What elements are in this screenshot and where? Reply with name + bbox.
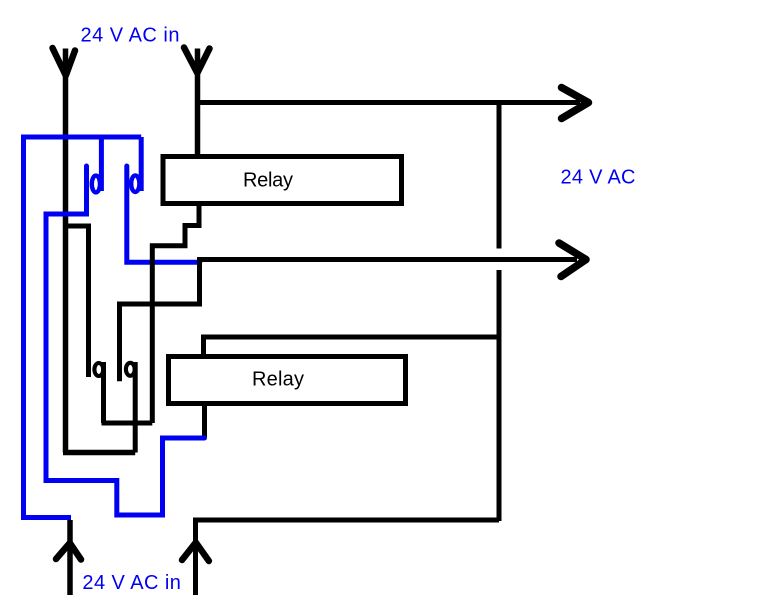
contact hook Q2 (black eyelet with tail) <box>126 362 135 453</box>
wire: second output line to arrow (24 V AC out 2) <box>197 243 586 277</box>
wire: blue lead from upper contact A winding down to relay K2 bottom pin <box>46 166 205 515</box>
24 V AC input line L3 (bottom left) with up arrowhead <box>56 520 81 595</box>
contact hook D1 (blue eyelet) <box>92 176 100 193</box>
svg-text:24 V AC in: 24 V AC in <box>82 572 180 594</box>
relay K1 box <box>163 157 402 204</box>
label: 24 V AC in (bottom) <box>82 572 180 594</box>
24 V AC input line L2 (top) with down arrowhead, feeds relay K1 top pin <box>184 48 210 157</box>
contact hook D2 (blue eyelet) <box>131 175 139 192</box>
svg-text:Relay: Relay <box>252 369 304 391</box>
label: 24 V AC (right output) <box>561 167 636 189</box>
wire: branch from L1 down to contact arm of hook Q1 <box>66 224 89 378</box>
wire: right vertical bus lower segment <box>497 270 502 521</box>
wire: link from hook Q1 tail to relay K1 return <box>102 421 153 426</box>
svg-text:Relay: Relay <box>243 170 293 192</box>
wire: right vertical bus upper segment (jumps over output 2) <box>497 103 502 249</box>
contact hook Q1 (black eyelet with tail) <box>94 362 103 423</box>
24 V AC input line L4 (bottom right) with up arrowhead, joins bottom wire <box>182 520 499 595</box>
svg-text:24 V AC in: 24 V AC in <box>81 25 180 47</box>
wire: top output line to arrow (24 V AC out 1) <box>198 88 589 119</box>
wire: stem of upper contact hook D2 <box>139 137 144 191</box>
wire: relay K2 top pin to right bus <box>204 337 500 356</box>
label: 24 V AC in (top) <box>81 25 180 47</box>
relay K2 box <box>169 357 406 404</box>
svg-text:24 V AC: 24 V AC <box>561 167 636 189</box>
wire: tee from node N2 down to contact arm of hook Q2 <box>120 260 200 381</box>
label: relay K2 <box>252 369 304 391</box>
24 V AC input line L1 (top left) with down arrowhead <box>53 48 76 453</box>
label: relay K1 <box>243 170 293 192</box>
wire: staircase from relay K1 bottom pin down <box>152 206 199 423</box>
wire: blue lead from upper contact B to output node N2 <box>127 166 200 262</box>
wire: relay K2 bottom pin <box>202 404 207 437</box>
wire: blue top rail from bottom-left input up left side, across, to upper contact stems <box>24 137 142 518</box>
wire: stem of upper contact hook D1 <box>99 137 104 191</box>
wire: bottom run of L1 to hook Q2 tail <box>63 450 135 456</box>
